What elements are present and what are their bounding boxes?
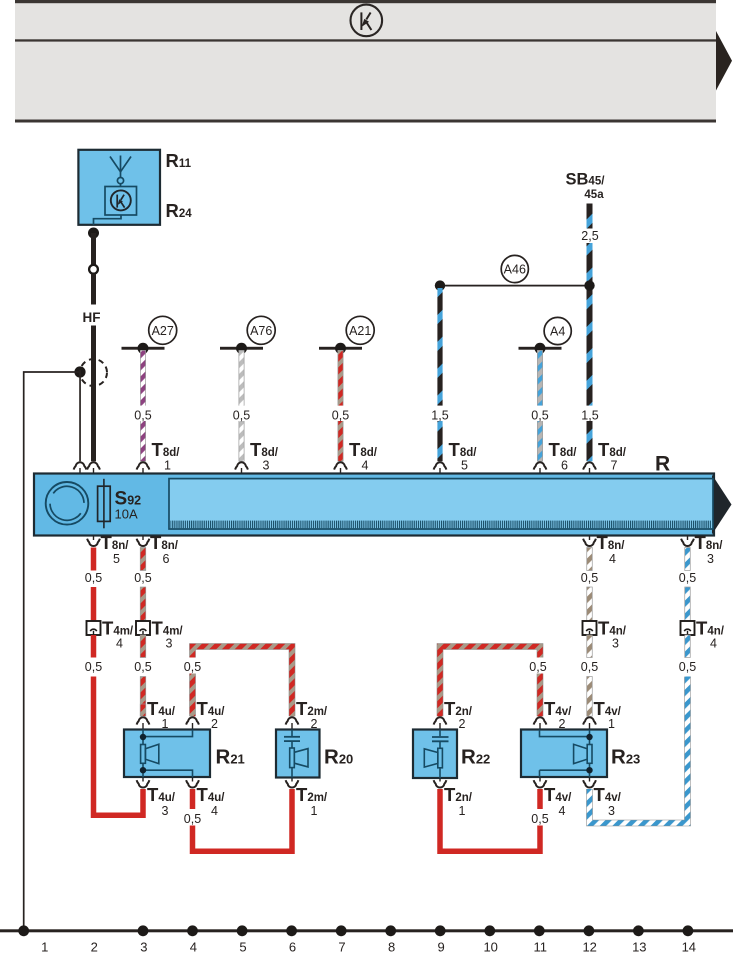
svg-text:0,5: 0,5 — [85, 660, 102, 674]
svg-text:6: 6 — [561, 459, 568, 473]
svg-text:9: 9 — [437, 940, 444, 953]
connector T2n/2 arc (top) — [434, 717, 447, 724]
rail dot 7 — [336, 925, 347, 936]
harness band middle line — [15, 39, 718, 41]
connector T2m/1 arc (bottom) — [291, 778, 293, 782]
radio symbol circle — [46, 482, 89, 525]
svg-text:HF: HF — [83, 310, 101, 325]
connector T8d (HF) arc — [87, 462, 100, 469]
svg-text:A27: A27 — [152, 324, 174, 338]
connector T8n/5 arc — [93, 536, 95, 541]
connector T8d/1 arc — [137, 462, 150, 469]
svg-text:0,5: 0,5 — [332, 409, 349, 423]
circled K symbol on band — [351, 5, 383, 37]
connector T4v/3 arc (bottom) — [589, 778, 591, 782]
R21 junction dots — [140, 734, 146, 740]
wire label 0,5 — [229, 406, 254, 421]
radio R outer box — [34, 474, 714, 536]
loudspeaker R23 box — [521, 730, 607, 778]
rail dot 8 — [385, 925, 396, 936]
svg-text:2: 2 — [211, 717, 218, 731]
node A76 circle label — [247, 316, 275, 344]
wire T8n/4 to inline connector — [587, 587, 593, 621]
connector T8n/6 arc — [142, 536, 144, 541]
rail dot 10 — [484, 925, 495, 936]
svg-text:A4: A4 — [550, 325, 565, 339]
shield dashed circle — [80, 359, 107, 386]
svg-text:0,5: 0,5 — [581, 660, 598, 674]
svg-text:R: R — [655, 453, 670, 476]
wire label 0,5 — [328, 406, 353, 421]
wire T2n/1 to T4v/4 red loop — [440, 789, 540, 851]
wire T8n/5 red down-run — [94, 677, 144, 816]
connector T8d/4 arc — [334, 462, 347, 469]
wire below T4 connector at x=589.5 — [587, 635, 593, 658]
svg-text:4: 4 — [559, 804, 566, 818]
junction dot below R11 — [88, 228, 99, 239]
svg-text:5: 5 — [239, 940, 246, 953]
svg-text:5: 5 — [461, 459, 468, 473]
rail dot 5 — [237, 925, 248, 936]
svg-text:2,5: 2,5 — [581, 229, 598, 243]
node A76 dot — [236, 343, 247, 354]
svg-text:6: 6 — [289, 940, 296, 953]
wire A27 to T8d/1 — [140, 350, 145, 461]
svg-text:0,5: 0,5 — [233, 409, 250, 423]
node A4 dot — [535, 343, 546, 354]
node A46 right dot — [584, 280, 594, 290]
svg-text:3: 3 — [263, 459, 270, 473]
connector T4v/4 arc (bottom) — [539, 778, 541, 782]
wire label 1,5 on battery wire — [578, 406, 603, 421]
rail dot 14 — [683, 925, 694, 936]
loudspeaker R20 box — [276, 730, 320, 778]
svg-text:0,5: 0,5 — [184, 660, 201, 674]
svg-text:0,5: 0,5 — [679, 571, 696, 585]
R23 junction dots — [586, 734, 592, 740]
wire T8n/3 to inline connector — [685, 587, 691, 621]
wire T4u/2 to T2m/2 loop — [193, 647, 293, 717]
inline connector T4n/3 square — [583, 621, 597, 635]
radio R arrow end — [712, 475, 732, 535]
ground rail left dot — [18, 925, 29, 936]
amplifier inner box — [105, 187, 137, 216]
connector T8d/6 arc — [534, 462, 547, 469]
wire label 0,5 — [131, 406, 156, 421]
wire label 1,5 — [428, 406, 453, 421]
harness band arrow — [716, 31, 732, 91]
short wire stubs above speaker connectors — [140, 704, 146, 716]
wire below T4 connector at x=143.0 — [140, 635, 146, 658]
svg-text:6: 6 — [163, 552, 170, 566]
svg-text:A76: A76 — [250, 324, 272, 338]
wire A21 to T8d/4 — [338, 350, 343, 461]
svg-text:4: 4 — [609, 552, 616, 566]
svg-text:1,5: 1,5 — [431, 409, 448, 423]
antenna symbol — [110, 156, 131, 187]
harness band bottom border — [15, 120, 716, 123]
wire T8n/3 blue down-run to T4v/3 — [590, 677, 688, 824]
svg-text:5: 5 — [113, 552, 120, 566]
antenna unit R11 box — [78, 150, 160, 225]
radio R inner box — [169, 479, 713, 529]
wire T8n/5 upper — [91, 548, 97, 571]
wire T8n/4 upper — [587, 548, 593, 571]
svg-text:0,5: 0,5 — [134, 409, 151, 423]
shield wire down — [79, 372, 81, 461]
svg-text:0,5: 0,5 — [529, 660, 546, 674]
wire T2n/2 to T4v/2 loop — [440, 647, 540, 717]
wire inside R11 — [94, 215, 122, 225]
svg-text:10: 10 — [483, 940, 497, 953]
node A4 circle label — [544, 317, 571, 344]
connector T4v/1 arc (top) — [583, 717, 596, 724]
svg-text:A46: A46 — [504, 263, 526, 277]
svg-text:0,5: 0,5 — [134, 571, 151, 585]
wire T8n/6 upper — [140, 548, 146, 571]
svg-text:7: 7 — [338, 940, 345, 953]
node A76 bar — [220, 347, 263, 350]
node A21 circle label — [346, 316, 374, 344]
svg-text:1: 1 — [311, 804, 318, 818]
svg-text:2: 2 — [459, 717, 466, 731]
node A27 dot — [138, 343, 149, 354]
svg-text:4: 4 — [116, 637, 123, 651]
svg-text:4: 4 — [190, 940, 197, 953]
circled K in amplifier — [111, 190, 131, 210]
svg-text:3: 3 — [162, 804, 169, 818]
ground rail — [0, 929, 733, 932]
inline connector T4m/4 square — [87, 621, 101, 635]
wire below T4 connector at x=687.5 — [685, 635, 691, 658]
rail dot 4 — [187, 925, 198, 936]
connector T4u/3 arc (bottom) — [142, 778, 144, 782]
wire T8n/6 continuation to T4u/1 — [140, 677, 146, 717]
svg-text:0,5: 0,5 — [531, 812, 548, 826]
svg-text:11: 11 — [533, 940, 547, 953]
battery feed wire 2,5 upper — [587, 204, 593, 229]
svg-text:8: 8 — [388, 940, 395, 953]
node A21 bar — [319, 347, 362, 350]
node A27 bar — [122, 347, 165, 350]
wire T8n/5 to inline connector — [91, 587, 97, 621]
wire label 0,5 — [528, 406, 553, 421]
svg-text:1: 1 — [164, 459, 171, 473]
svg-text:3: 3 — [608, 804, 615, 818]
connector T4u/4 arc (bottom) — [192, 778, 194, 782]
inline connector circle — [89, 265, 98, 274]
svg-text:4: 4 — [710, 637, 717, 651]
inline connector T4m/3 square — [136, 621, 150, 635]
rail dot 9 — [435, 925, 446, 936]
node A46 left dot — [435, 280, 445, 290]
HF coax wire middle — [91, 274, 96, 305]
wire A4 to T8d/6 — [537, 350, 542, 461]
connector T8d/3 arc — [235, 462, 248, 469]
wire T8n/6 to inline connector — [140, 587, 146, 621]
svg-text:0,5: 0,5 — [184, 812, 201, 826]
rail dot 11 — [534, 925, 545, 936]
connector T8n/3 arc — [687, 536, 689, 541]
loudspeaker R21 box — [124, 730, 210, 778]
node A21 dot — [335, 343, 346, 354]
svg-text:0,5: 0,5 — [134, 660, 151, 674]
svg-text:1: 1 — [608, 717, 615, 731]
wire T8n/3 upper — [685, 548, 691, 571]
harness band (grey bus bar) — [15, 0, 716, 123]
harness band top border — [15, 0, 716, 3]
rail dot 3 — [138, 925, 149, 936]
wire A46 to T8d/5 — [437, 288, 442, 461]
radio R comb hatching — [171, 521, 712, 529]
svg-text:13: 13 — [632, 940, 646, 953]
shield junction dot — [74, 366, 85, 377]
svg-text:1: 1 — [459, 804, 466, 818]
connector T4u/1 arc (top) — [137, 717, 150, 724]
node A46 circle label — [501, 255, 528, 282]
svg-text:4: 4 — [211, 804, 218, 818]
svg-text:2: 2 — [91, 940, 98, 953]
fuse S92 symbol — [98, 486, 111, 521]
connector T4u/2 arc (top) — [186, 717, 199, 724]
HF coax wire lower — [91, 326, 96, 462]
svg-text:10A: 10A — [115, 507, 138, 522]
connector T8d/5 arc — [434, 462, 447, 469]
svg-text:0,5: 0,5 — [85, 571, 102, 585]
svg-text:1,5: 1,5 — [581, 409, 598, 423]
rail dot 6 — [286, 925, 297, 936]
svg-text:3: 3 — [707, 552, 714, 566]
connector T8d/2 arc — [74, 462, 87, 469]
connector T4v/2 arc (top) — [534, 717, 547, 724]
svg-text:1: 1 — [41, 940, 48, 953]
connector T2n/1 arc (bottom) — [439, 778, 441, 782]
svg-text:3: 3 — [140, 940, 147, 953]
HF coax wire upper — [91, 233, 96, 265]
svg-text:A21: A21 — [349, 324, 371, 338]
svg-text:0,5: 0,5 — [679, 660, 696, 674]
rail dot 12 — [584, 925, 595, 936]
svg-text:3: 3 — [166, 637, 173, 651]
connector T8n/4 arc — [589, 536, 591, 541]
connector T8d/7 arc — [583, 462, 596, 469]
node A27 circle label — [149, 316, 177, 344]
svg-text:3: 3 — [612, 637, 619, 651]
node A4 bar — [519, 347, 562, 350]
loudspeaker R22 box — [413, 730, 457, 779]
connector T2m/2 arc (top) — [286, 717, 299, 724]
rail dot 13 — [633, 925, 644, 936]
svg-text:7: 7 — [611, 459, 618, 473]
svg-text:45a: 45a — [584, 189, 604, 201]
inline connector T4n/4 square — [681, 621, 695, 635]
svg-text:4: 4 — [362, 459, 369, 473]
wire A76 to T8d/3 — [239, 350, 244, 461]
node A46 link line — [440, 285, 590, 287]
wire below T4 connector at x=93.5 — [91, 635, 97, 658]
wire T4u/4 to T2m/1 red loop — [193, 789, 293, 851]
battery feed wire to T8d/7 — [587, 243, 593, 461]
svg-text:12: 12 — [582, 940, 596, 953]
svg-text:14: 14 — [682, 940, 696, 953]
svg-text:0,5: 0,5 — [581, 571, 598, 585]
shield wire to ground rail — [24, 372, 80, 931]
svg-text:0,5: 0,5 — [531, 409, 548, 423]
